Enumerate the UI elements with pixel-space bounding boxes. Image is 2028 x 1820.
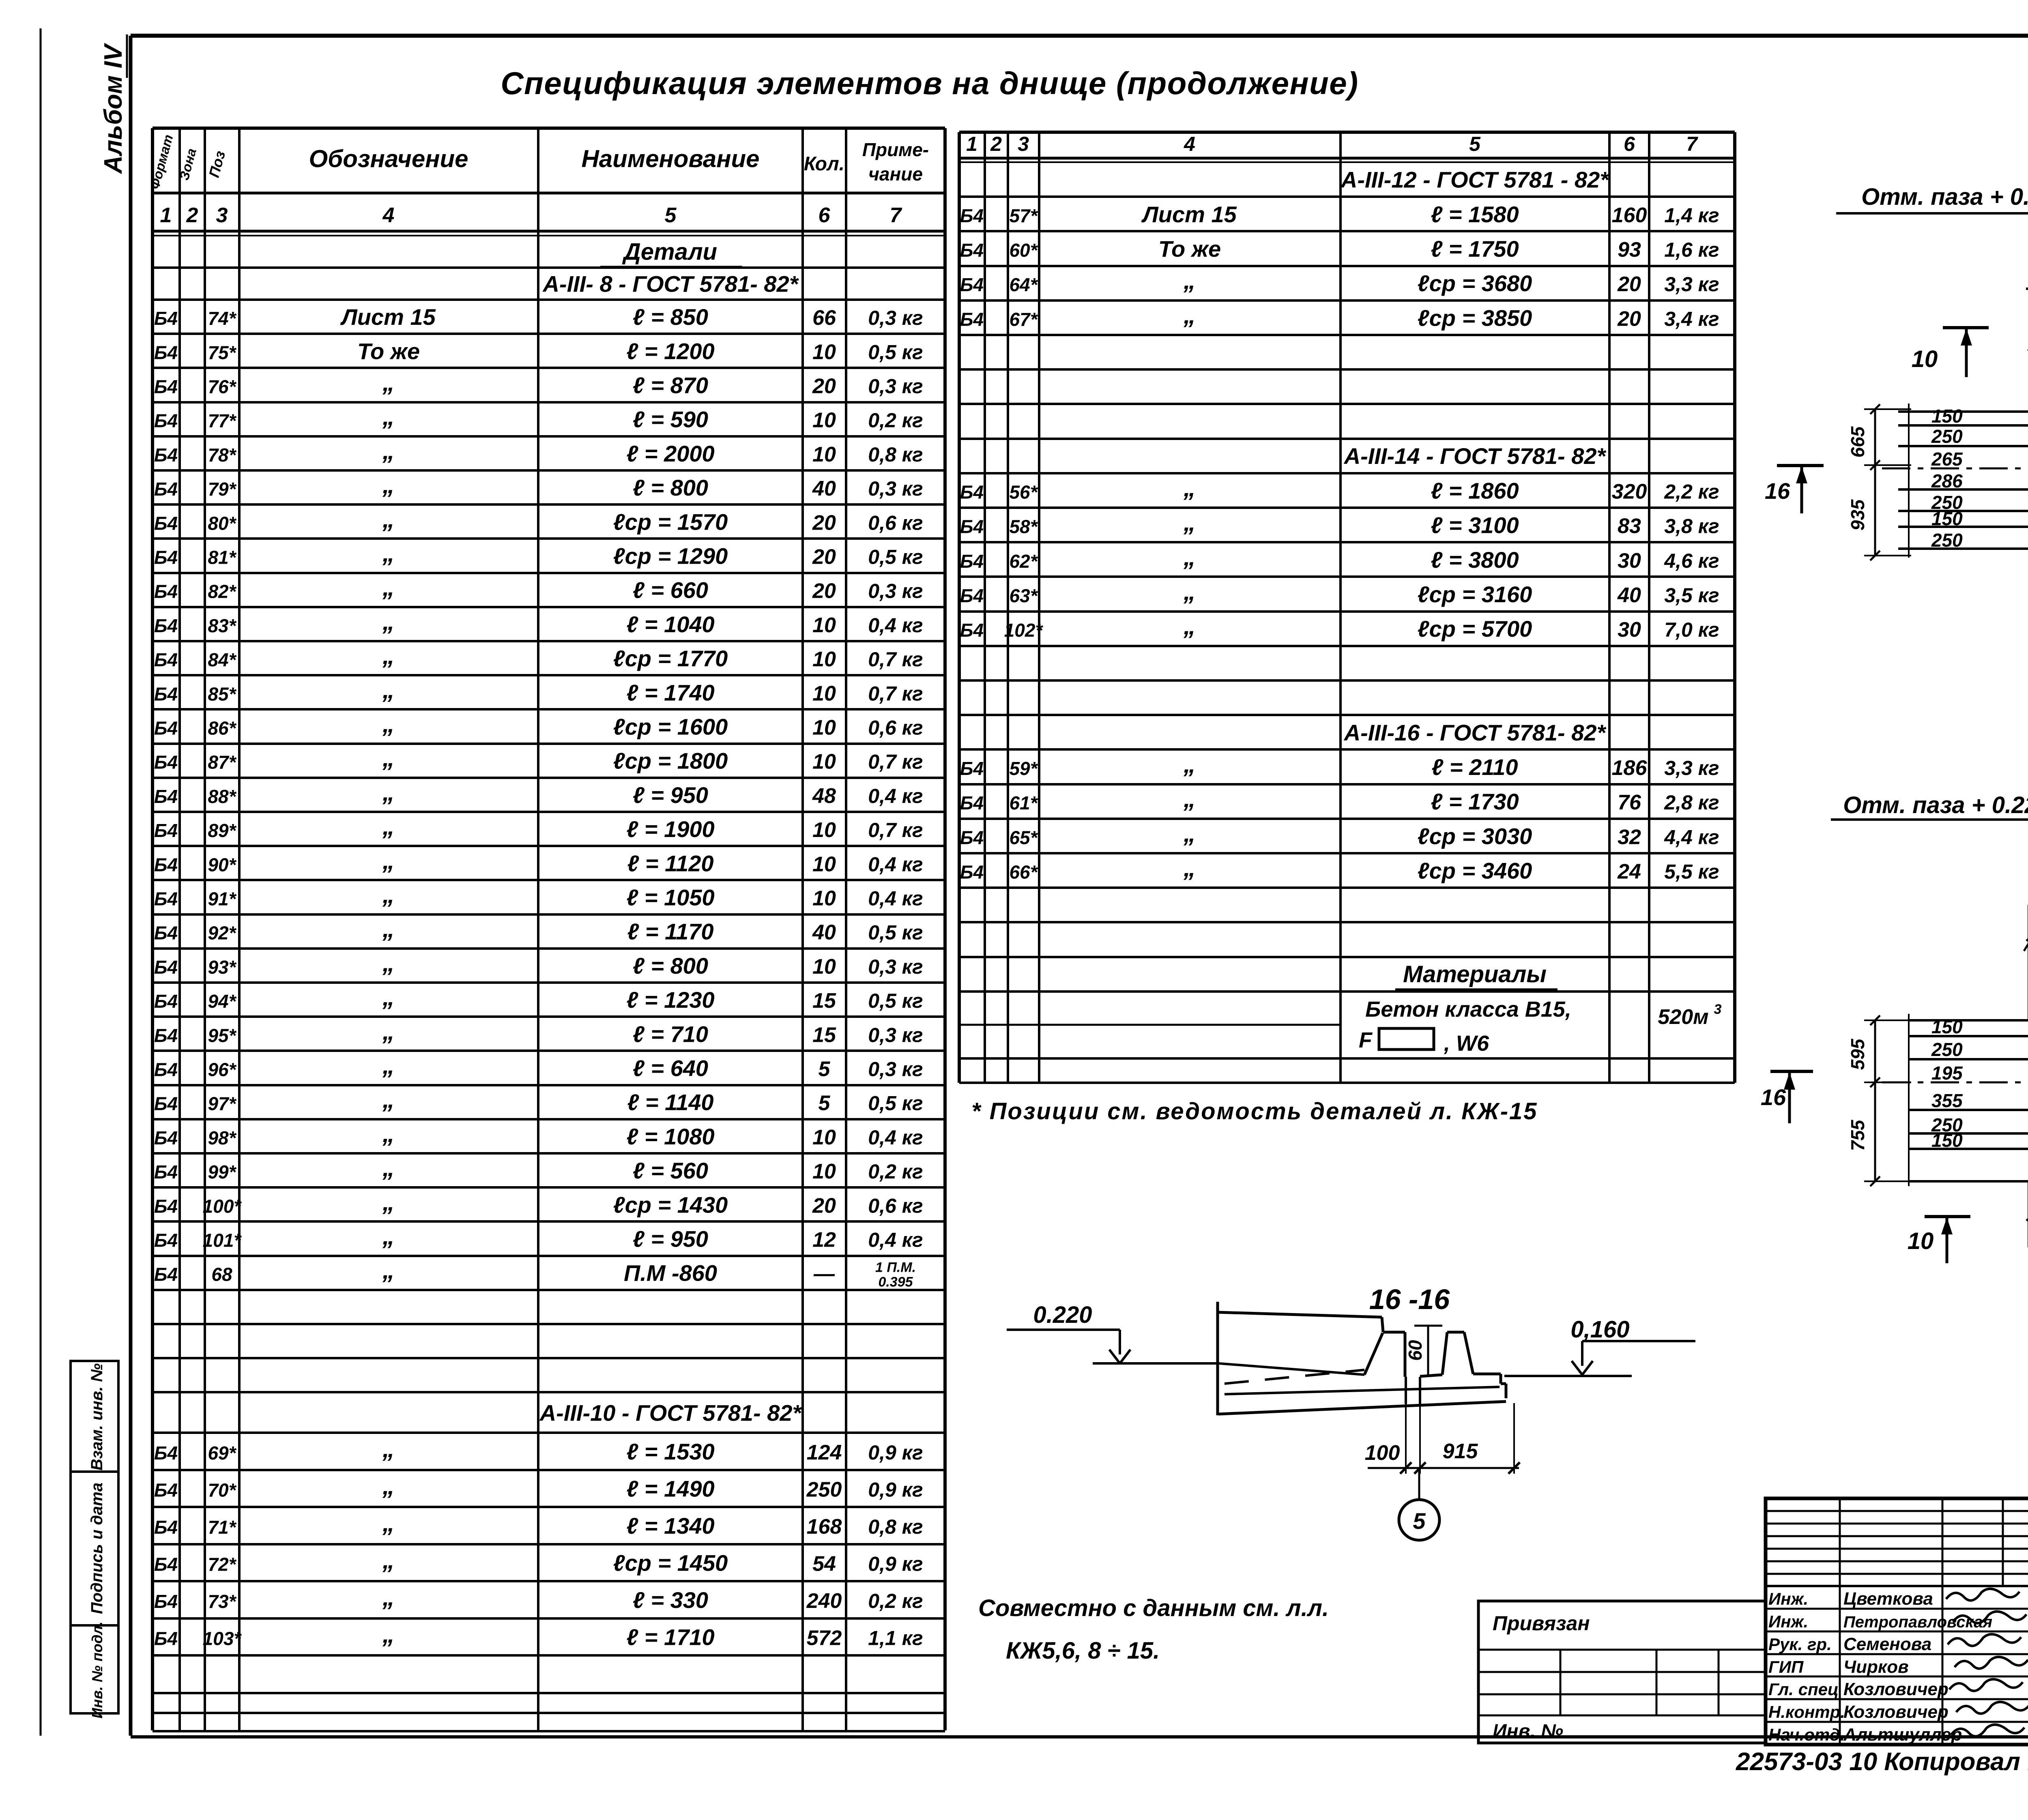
svg-text:„: „ bbox=[382, 1621, 395, 1648]
svg-text:„: „ bbox=[1183, 612, 1196, 640]
svg-text:20: 20 bbox=[1617, 273, 1641, 296]
svg-text:„: „ bbox=[1183, 854, 1196, 882]
svg-text:Б4: Б4 bbox=[154, 854, 178, 875]
svg-text:Б4: Б4 bbox=[154, 444, 178, 466]
svg-text:103*: 103* bbox=[203, 1628, 242, 1649]
svg-text:77*: 77* bbox=[208, 410, 236, 431]
svg-text:Б4: Б4 bbox=[960, 758, 984, 779]
svg-text:„: „ bbox=[1183, 509, 1196, 536]
svg-text:101*: 101* bbox=[203, 1230, 242, 1251]
svg-text:96*: 96* bbox=[208, 1059, 236, 1080]
svg-text:4,6 кг: 4,6 кг bbox=[1664, 549, 1719, 572]
svg-text:10: 10 bbox=[812, 716, 836, 740]
svg-text:0,2 кг: 0,2 кг bbox=[868, 1590, 923, 1612]
svg-text:ℓср = 1770: ℓср = 1770 bbox=[613, 646, 728, 671]
svg-text:Козловичер: Козловичер bbox=[1843, 1679, 1949, 1699]
svg-text:5: 5 bbox=[819, 1058, 831, 1081]
svg-text:Отм. паза + 0.220: Отм. паза + 0.220 bbox=[1861, 184, 2028, 210]
svg-text:Семенова: Семенова bbox=[1843, 1634, 1931, 1654]
svg-text:0,7 кг: 0,7 кг bbox=[868, 648, 923, 671]
svg-text:—: — bbox=[813, 1262, 835, 1286]
svg-text:150: 150 bbox=[1931, 508, 1963, 529]
svg-text:0,3 кг: 0,3 кг bbox=[868, 1058, 923, 1081]
svg-text:Б4: Б4 bbox=[154, 376, 178, 397]
section mark 16 left (VI) bbox=[1777, 464, 1824, 467]
svg-text:Инж.: Инж. bbox=[1768, 1589, 1808, 1608]
svg-text:935: 935 bbox=[1847, 499, 1868, 530]
svg-text:Б4: Б4 bbox=[154, 547, 178, 568]
svg-text:ℓ = 870: ℓ = 870 bbox=[633, 373, 708, 398]
svg-text:168: 168 bbox=[807, 1515, 842, 1539]
svg-text:ℓср = 3680: ℓср = 3680 bbox=[1418, 270, 1532, 296]
svg-text:0,4 кг: 0,4 кг bbox=[868, 1126, 923, 1149]
svg-text:ℓ = 1860: ℓ = 1860 bbox=[1431, 478, 1519, 503]
svg-text:30: 30 bbox=[1618, 549, 1641, 573]
svg-text:Нач.отд.: Нач.отд. bbox=[1768, 1725, 1845, 1744]
svg-text:Б4: Б4 bbox=[960, 620, 984, 641]
svg-text:„: „ bbox=[382, 1509, 395, 1537]
svg-text:79*: 79* bbox=[208, 479, 236, 500]
svg-text:ℓср = 3460: ℓср = 3460 bbox=[1418, 858, 1532, 884]
svg-text:ℓ = 1490: ℓ = 1490 bbox=[626, 1476, 714, 1502]
svg-text:3,4 кг: 3,4 кг bbox=[1664, 307, 1719, 330]
svg-text:70*: 70* bbox=[208, 1480, 236, 1501]
svg-text:0,6 кг: 0,6 кг bbox=[868, 511, 923, 534]
svg-text:Б4: Б4 bbox=[154, 1517, 178, 1538]
svg-text:Б4: Б4 bbox=[154, 615, 178, 636]
svg-text:186: 186 bbox=[1612, 756, 1648, 780]
svg-text:7,0 кг: 7,0 кг bbox=[1664, 618, 1719, 641]
svg-text:„: „ bbox=[382, 813, 395, 840]
frame border bbox=[131, 34, 2028, 38]
svg-text:„: „ bbox=[382, 847, 395, 874]
svg-text:150: 150 bbox=[1931, 1130, 1963, 1151]
svg-text:16: 16 bbox=[1761, 1084, 1786, 1110]
svg-text:58*: 58* bbox=[1009, 516, 1038, 537]
svg-text:Б4: Б4 bbox=[154, 718, 178, 739]
svg-text:16: 16 bbox=[1765, 478, 1790, 504]
svg-text:„: „ bbox=[1183, 578, 1196, 605]
svg-text:Б4: Б4 bbox=[154, 1442, 178, 1464]
svg-text:320: 320 bbox=[1612, 480, 1647, 503]
svg-text:ℓ = 1340: ℓ = 1340 bbox=[626, 1513, 714, 1539]
svg-text:16 -16: 16 -16 bbox=[1369, 1283, 1450, 1315]
svg-text:ℓ = 800: ℓ = 800 bbox=[633, 953, 708, 979]
svg-text:0.220: 0.220 bbox=[1033, 1302, 1092, 1328]
svg-text:Обозначение: Обозначение bbox=[309, 145, 468, 172]
svg-text:88*: 88* bbox=[208, 786, 236, 807]
svg-text:ℓ = 330: ℓ = 330 bbox=[633, 1587, 708, 1613]
svg-text:81*: 81* bbox=[208, 547, 236, 568]
svg-text:Б4: Б4 bbox=[154, 1628, 178, 1649]
svg-text:Б4: Б4 bbox=[154, 1480, 178, 1501]
svg-text:КЖ5,6, 8 ÷ 15.: КЖ5,6, 8 ÷ 15. bbox=[1006, 1638, 1160, 1664]
svg-text:А-III-10 - ГОСТ 5781- 82*: А-III-10 - ГОСТ 5781- 82* bbox=[539, 1400, 802, 1425]
svg-text:60: 60 bbox=[1405, 1340, 1426, 1361]
svg-text:ℓср = 1290: ℓср = 1290 bbox=[613, 543, 728, 569]
svg-text:Б4: Б4 bbox=[154, 683, 178, 704]
svg-text:ℓ = 1230: ℓ = 1230 bbox=[626, 987, 714, 1013]
svg-text:Б4: Б4 bbox=[154, 1195, 178, 1217]
svg-text:61*: 61* bbox=[1009, 792, 1038, 813]
sheet left edge line bbox=[40, 28, 42, 1736]
svg-text:Б4: Б4 bbox=[154, 1591, 178, 1612]
svg-text:93*: 93* bbox=[208, 957, 236, 978]
svg-text:355: 355 bbox=[1931, 1090, 1963, 1111]
svg-text:0,5 кг: 0,5 кг bbox=[868, 546, 923, 569]
svg-text:Б4: Б4 bbox=[960, 309, 984, 330]
svg-text:Б4: Б4 bbox=[154, 820, 178, 841]
svg-text:„: „ bbox=[382, 1435, 395, 1462]
svg-text:67*: 67* bbox=[1009, 309, 1038, 330]
svg-text:54: 54 bbox=[812, 1552, 836, 1576]
svg-text:„: „ bbox=[382, 1154, 395, 1181]
svg-text:10: 10 bbox=[812, 443, 836, 466]
svg-text:20: 20 bbox=[812, 511, 836, 534]
svg-text:20: 20 bbox=[812, 375, 836, 398]
svg-text:74*: 74* bbox=[208, 308, 236, 329]
svg-text:0,9 кг: 0,9 кг bbox=[868, 1553, 923, 1575]
svg-text:100: 100 bbox=[1365, 1441, 1400, 1465]
svg-text:Инж.: Инж. bbox=[1768, 1612, 1808, 1631]
svg-text:20: 20 bbox=[812, 579, 836, 603]
svg-text:Б4: Б4 bbox=[960, 792, 984, 813]
svg-text:3,5 кг: 3,5 кг bbox=[1664, 584, 1719, 607]
svg-text:ℓ = 560: ℓ = 560 bbox=[633, 1158, 708, 1183]
svg-text:15: 15 bbox=[812, 1023, 836, 1047]
svg-text:Н.контр.: Н.контр. bbox=[1768, 1702, 1845, 1721]
svg-text:Б4: Б4 bbox=[154, 1025, 178, 1046]
witness verticals VI bbox=[1908, 403, 1910, 558]
svg-text:Б4: Б4 bbox=[154, 1230, 178, 1251]
privyazan box bbox=[1478, 1601, 1766, 1743]
svg-text:Б4: Б4 bbox=[154, 957, 178, 978]
svg-text:572: 572 bbox=[807, 1627, 842, 1650]
svg-text:20: 20 bbox=[812, 1194, 836, 1217]
svg-text:Детали: Детали bbox=[622, 239, 717, 265]
svg-text:57*: 57* bbox=[1009, 205, 1038, 226]
svg-text:69*: 69* bbox=[208, 1442, 236, 1464]
svg-text:5: 5 bbox=[1469, 133, 1481, 155]
svg-text:, W6: , W6 bbox=[1444, 1031, 1489, 1056]
svg-text:6: 6 bbox=[819, 204, 831, 227]
svg-text:10: 10 bbox=[812, 1160, 836, 1183]
svg-text:10: 10 bbox=[812, 340, 836, 364]
svg-text:2: 2 bbox=[990, 133, 1002, 155]
svg-text:„: „ bbox=[1183, 751, 1196, 778]
svg-text:ℓ = 3800: ℓ = 3800 bbox=[1431, 547, 1519, 573]
svg-text:Б4: Б4 bbox=[960, 481, 984, 502]
svg-text:То же: То же bbox=[357, 338, 420, 364]
svg-text:56*: 56* bbox=[1009, 481, 1038, 502]
svg-text:ℓср = 3850: ℓср = 3850 bbox=[1418, 305, 1532, 331]
svg-text:10: 10 bbox=[812, 955, 836, 979]
svg-text:ℓ = 710: ℓ = 710 bbox=[633, 1021, 708, 1047]
svg-text:66*: 66* bbox=[1009, 862, 1038, 883]
svg-text:71*: 71* bbox=[208, 1517, 236, 1538]
wall horizontals VII bbox=[1909, 1019, 2028, 1022]
svg-text:86*: 86* bbox=[208, 718, 236, 739]
svg-text:3,3 кг: 3,3 кг bbox=[1664, 273, 1719, 296]
svg-text:Б4: Б4 bbox=[154, 1554, 178, 1575]
svg-text:64*: 64* bbox=[1009, 274, 1038, 295]
svg-text:Наименование: Наименование bbox=[581, 145, 759, 172]
svg-text:„: „ bbox=[382, 983, 395, 1011]
svg-text:Б4: Б4 bbox=[960, 240, 984, 261]
svg-text:Б4: Б4 bbox=[154, 1093, 178, 1114]
svg-text:1: 1 bbox=[160, 204, 172, 227]
svg-text:73*: 73* bbox=[208, 1591, 236, 1612]
svg-text:Б4: Б4 bbox=[154, 1161, 178, 1183]
svg-text:40: 40 bbox=[812, 921, 836, 944]
svg-text:4: 4 bbox=[382, 204, 395, 227]
svg-text:ℓ = 1580: ℓ = 1580 bbox=[1431, 202, 1519, 227]
svg-text:Б4: Б4 bbox=[960, 205, 984, 226]
dashed line bbox=[1225, 1370, 1364, 1384]
svg-text:Б4: Б4 bbox=[154, 786, 178, 807]
svg-text:Привязан: Привязан bbox=[1493, 1612, 1590, 1635]
groove bbox=[1405, 1377, 1407, 1404]
svg-text:ℓ = 2000: ℓ = 2000 bbox=[626, 441, 714, 466]
svg-text:75*: 75* bbox=[208, 342, 236, 363]
svg-text:20: 20 bbox=[812, 545, 836, 569]
svg-text:595: 595 bbox=[1847, 1038, 1868, 1070]
svg-text:чание: чание bbox=[868, 163, 923, 185]
svg-text:ℓ = 850: ℓ = 850 bbox=[633, 304, 708, 330]
svg-text:Б4: Б4 bbox=[154, 581, 178, 602]
svg-text:15: 15 bbox=[812, 989, 836, 1013]
svg-text:ℓср = 5700: ℓср = 5700 bbox=[1418, 616, 1532, 642]
svg-text:10: 10 bbox=[812, 648, 836, 671]
svg-text:65*: 65* bbox=[1009, 827, 1038, 848]
svg-text:265: 265 bbox=[1931, 449, 1963, 470]
svg-text:Альтшуллер: Альтшуллер bbox=[1843, 1725, 1962, 1745]
svg-text:Б4: Б4 bbox=[960, 274, 984, 295]
svg-text:98*: 98* bbox=[208, 1127, 236, 1148]
svg-text:ГИП: ГИП bbox=[1768, 1657, 1804, 1676]
svg-text:„: „ bbox=[382, 369, 395, 396]
svg-text:Лист 15: Лист 15 bbox=[1141, 202, 1237, 227]
svg-text:Бетон класса В15,: Бетон класса В15, bbox=[1365, 997, 1571, 1022]
svg-text:1: 1 bbox=[966, 133, 977, 155]
svg-text:5: 5 bbox=[665, 204, 677, 227]
svg-text:22573-03 10 Копировал Г: 22573-03 10 Копировал Гольденбаум bbox=[1736, 1748, 2028, 1776]
slab bottom bbox=[1218, 1401, 1506, 1414]
svg-text:Лист 15: Лист 15 bbox=[340, 304, 436, 330]
svg-text:59*: 59* bbox=[1009, 758, 1038, 779]
svg-text:Взам. инв. №: Взам. инв. № bbox=[88, 1363, 106, 1470]
svg-text:Рук. гр.: Рук. гр. bbox=[1768, 1635, 1832, 1654]
svg-text:А-III-12 - ГОСТ 5781 - 82*: А-III-12 - ГОСТ 5781 - 82* bbox=[1340, 167, 1609, 193]
svg-text:915: 915 bbox=[1443, 1440, 1478, 1463]
svg-text:0,7 кг: 0,7 кг bbox=[868, 751, 923, 773]
svg-text:* Позиции см. ведомость де: * Позиции см. ведомость деталей л. КЖ-15 bbox=[971, 1098, 1538, 1125]
dim 100 915 bbox=[1368, 1467, 1519, 1469]
svg-text:„: „ bbox=[1183, 820, 1196, 847]
svg-text:Б4: Б4 bbox=[154, 342, 178, 363]
svg-text:Отм. паза + 0.220: Отм. паза + 0.220 bbox=[1843, 792, 2028, 818]
svg-text:10: 10 bbox=[1908, 1228, 1934, 1254]
svg-text:85*: 85* bbox=[208, 683, 236, 704]
svg-text:102*: 102* bbox=[1004, 620, 1044, 641]
svg-text:Б4: Б4 bbox=[154, 410, 178, 431]
wall horizontals VI bbox=[1898, 410, 2028, 413]
svg-text:10: 10 bbox=[812, 1126, 836, 1149]
svg-text:„: „ bbox=[382, 437, 395, 464]
svg-text:83: 83 bbox=[1618, 515, 1641, 538]
svg-text:ℓ = 800: ℓ = 800 bbox=[633, 475, 708, 500]
svg-text:„: „ bbox=[382, 915, 395, 942]
svg-text:0,2 кг: 0,2 кг bbox=[868, 1160, 923, 1183]
svg-text:1 П.М.: 1 П.М. bbox=[875, 1260, 916, 1275]
svg-text:520м: 520м bbox=[1658, 1005, 1708, 1029]
svg-text:Гл. спец: Гл. спец bbox=[1768, 1680, 1839, 1699]
svg-text:95*: 95* bbox=[208, 1025, 236, 1046]
svg-text:1,4 кг: 1,4 кг bbox=[1664, 204, 1719, 227]
svg-text:ℓ = 1120: ℓ = 1120 bbox=[627, 850, 713, 876]
svg-text:30: 30 bbox=[1618, 618, 1641, 642]
svg-text:240: 240 bbox=[806, 1589, 842, 1613]
svg-text:Б4: Б4 bbox=[154, 991, 178, 1012]
stamp boxes left bbox=[71, 1361, 118, 1713]
svg-text:„: „ bbox=[382, 1052, 395, 1079]
svg-text:10: 10 bbox=[812, 409, 836, 432]
section mark 16 left (VII) bbox=[1770, 1070, 1813, 1073]
svg-text:А-III- 8 - ГОСТ 5781- 82*: А-III- 8 - ГОСТ 5781- 82* bbox=[542, 271, 799, 297]
centerline horizontal VI bbox=[1882, 468, 2028, 470]
svg-text:„: „ bbox=[382, 1120, 395, 1147]
svg-text:24: 24 bbox=[1617, 860, 1641, 884]
svg-text:ℓ = 1200: ℓ = 1200 bbox=[626, 338, 714, 364]
svg-text:Чирков: Чирков bbox=[1843, 1657, 1909, 1677]
svg-text:0,9 кг: 0,9 кг bbox=[868, 1441, 923, 1464]
svg-text:ℓср = 3160: ℓср = 3160 bbox=[1418, 582, 1532, 607]
svg-text:48: 48 bbox=[812, 784, 836, 808]
svg-text:2,2 кг: 2,2 кг bbox=[1664, 480, 1719, 503]
svg-text:0,160: 0,160 bbox=[1570, 1316, 1629, 1343]
svg-text:Совместно с данным см. л.л.: Совместно с данным см. л.л. bbox=[978, 1595, 1329, 1621]
svg-text:Козловичер: Козловичер bbox=[1843, 1702, 1949, 1722]
svg-text:ℓ = 950: ℓ = 950 bbox=[633, 1226, 708, 1252]
svg-text:Б4: Б4 bbox=[154, 649, 178, 670]
svg-text:32: 32 bbox=[1618, 825, 1641, 849]
svg-text:„: „ bbox=[382, 540, 395, 567]
svg-text:0,3 кг: 0,3 кг bbox=[868, 1024, 923, 1046]
svg-text:Б4: Б4 bbox=[154, 513, 178, 534]
section mark 10 left (VI) bbox=[1943, 326, 1989, 329]
svg-text:„: „ bbox=[382, 779, 395, 806]
svg-text:ℓср = 1570: ℓср = 1570 bbox=[613, 509, 728, 534]
witness verticals VII bbox=[1908, 1014, 1910, 1186]
svg-text:То же: То же bbox=[1158, 236, 1221, 262]
svg-text:0,5 кг: 0,5 кг bbox=[868, 1092, 923, 1115]
svg-text:94*: 94* bbox=[208, 991, 236, 1012]
svg-text:100*: 100* bbox=[203, 1195, 242, 1217]
svg-text:„: „ bbox=[382, 676, 395, 703]
svg-text:150: 150 bbox=[1931, 1016, 1963, 1037]
svg-text:ℓ = 1080: ℓ = 1080 bbox=[626, 1124, 714, 1149]
svg-text:80*: 80* bbox=[208, 513, 236, 534]
svg-text:0,6 кг: 0,6 кг bbox=[868, 1194, 923, 1217]
svg-text:F: F bbox=[1359, 1028, 1373, 1052]
svg-text:„: „ bbox=[1183, 474, 1196, 501]
svg-text:6: 6 bbox=[1624, 133, 1635, 155]
svg-text:1,6 кг: 1,6 кг bbox=[1664, 238, 1719, 261]
svg-text:ℓ = 1140: ℓ = 1140 bbox=[627, 1090, 713, 1115]
svg-text:ℓ = 640: ℓ = 640 bbox=[633, 1056, 708, 1081]
slab outline bbox=[1216, 1302, 1219, 1415]
svg-text:„: „ bbox=[382, 403, 395, 430]
svg-text:5,5 кг: 5,5 кг bbox=[1664, 861, 1719, 883]
svg-text:Б4: Б4 bbox=[154, 479, 178, 500]
svg-text:ℓср = 1600: ℓср = 1600 bbox=[613, 714, 728, 740]
svg-text:76: 76 bbox=[1618, 791, 1641, 814]
svg-text:Спецификация элементов на дн: Спецификация элементов на днище (продолж… bbox=[501, 65, 1358, 101]
title block bbox=[1766, 1498, 2028, 1745]
centerline horizontal VII bbox=[1882, 1082, 2028, 1084]
svg-text:0,4 кг: 0,4 кг bbox=[868, 887, 923, 910]
svg-text:„: „ bbox=[1183, 267, 1196, 294]
svg-text:10: 10 bbox=[1912, 346, 1938, 372]
svg-text:0,5 кг: 0,5 кг bbox=[868, 921, 923, 944]
svg-text:П.М -860: П.М -860 bbox=[624, 1260, 717, 1286]
svg-text:60*: 60* bbox=[1009, 240, 1038, 261]
svg-text:91*: 91* bbox=[208, 889, 236, 910]
svg-text:0.395: 0.395 bbox=[878, 1275, 913, 1290]
svg-text:Б4: Б4 bbox=[154, 1059, 178, 1080]
svg-text:10: 10 bbox=[812, 682, 836, 705]
svg-text:Б4: Б4 bbox=[960, 551, 984, 572]
svg-text:„: „ bbox=[382, 642, 395, 669]
svg-text:ℓ = 590: ℓ = 590 bbox=[633, 407, 708, 432]
svg-text:„: „ bbox=[382, 505, 395, 532]
svg-text:0,3 кг: 0,3 кг bbox=[868, 307, 923, 329]
svg-text:Цветкова: Цветкова bbox=[1843, 1589, 1933, 1609]
svg-text:Инв. №: Инв. № bbox=[1493, 1721, 1563, 1742]
svg-text:250: 250 bbox=[806, 1478, 842, 1502]
svg-text:0,6 кг: 0,6 кг bbox=[868, 717, 923, 739]
svg-text:7: 7 bbox=[890, 204, 902, 227]
svg-text:ℓ = 1050: ℓ = 1050 bbox=[626, 885, 714, 910]
svg-text:10: 10 bbox=[812, 750, 836, 774]
svg-text:„: „ bbox=[382, 471, 395, 498]
svg-text:93: 93 bbox=[1618, 238, 1641, 262]
svg-text:5: 5 bbox=[819, 1092, 831, 1115]
svg-text:ℓср = 1800: ℓср = 1800 bbox=[613, 748, 728, 774]
svg-text:„: „ bbox=[382, 949, 395, 977]
svg-text:0,5 кг: 0,5 кг bbox=[868, 341, 923, 363]
svg-text:3,3 кг: 3,3 кг bbox=[1664, 757, 1719, 779]
svg-text:Петропавловская: Петропавловская bbox=[1843, 1613, 1992, 1631]
svg-text:2,8 кг: 2,8 кг bbox=[1664, 791, 1719, 814]
svg-text:Б4: Б4 bbox=[960, 862, 984, 883]
svg-text:0,3 кг: 0,3 кг bbox=[868, 477, 923, 500]
svg-text:10: 10 bbox=[812, 852, 836, 876]
svg-text:10: 10 bbox=[812, 818, 836, 842]
svg-text:63*: 63* bbox=[1009, 585, 1038, 606]
svg-text:92*: 92* bbox=[208, 923, 236, 944]
svg-text:195: 195 bbox=[1931, 1062, 1963, 1084]
svg-text:68: 68 bbox=[211, 1264, 232, 1285]
svg-text:ℓ = 1040: ℓ = 1040 bbox=[626, 612, 714, 637]
svg-text:0,4 кг: 0,4 кг bbox=[868, 785, 923, 807]
svg-text:ℓ = 660: ℓ = 660 bbox=[633, 577, 708, 603]
svg-text:Б4: Б4 bbox=[154, 752, 178, 773]
svg-text:„: „ bbox=[382, 1257, 395, 1284]
svg-text:„: „ bbox=[382, 710, 395, 738]
svg-text:3: 3 bbox=[1714, 1002, 1722, 1017]
svg-text:Б4: Б4 bbox=[960, 827, 984, 848]
